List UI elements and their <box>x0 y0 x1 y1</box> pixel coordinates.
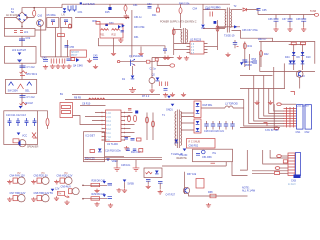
capacitor C35 <box>257 9 268 13</box>
box opto <box>196 179 204 189</box>
svg-text:CY 2n2: CY 2n2 <box>27 96 36 99</box>
box snubber <box>187 139 216 149</box>
capacitor C15 <box>131 139 135 141</box>
resistor R51 <box>58 34 65 37</box>
svg-text:SHORT: SHORT <box>71 52 80 54</box>
svg-text:3 14: 3 14 <box>106 121 111 123</box>
transformer T1 right winding <box>180 112 181 146</box>
svg-text:Q4 C945: Q4 C945 <box>73 65 83 68</box>
svg-text:CN5 FDD 5V: CN5 FDD 5V <box>34 175 49 178</box>
wire <box>47 126 49 129</box>
svg-text:D31: D31 <box>134 36 139 39</box>
wire <box>184 172 186 194</box>
wire <box>273 104 275 130</box>
svg-text:6 11: 6 11 <box>106 133 111 135</box>
diode D3 <box>135 111 138 114</box>
ground <box>114 166 121 171</box>
box B line filter 2 <box>4 47 36 64</box>
ground <box>273 27 278 31</box>
wire <box>240 38 273 41</box>
box bleeder <box>144 168 162 178</box>
svg-text:Q1 2SC4242: Q1 2SC4242 <box>129 55 144 58</box>
capacitor C34 <box>205 8 213 17</box>
wire <box>114 38 142 52</box>
resistor R5 <box>13 139 19 143</box>
resistor R25 <box>139 149 143 153</box>
svg-text:D15: D15 <box>105 11 110 14</box>
wire drop x158 <box>157 4 159 8</box>
wire <box>252 171 288 174</box>
wire <box>21 93 23 107</box>
box C rectifier select <box>5 80 36 94</box>
capacitor C19 <box>211 121 215 130</box>
transistor Q2 <box>149 78 155 84</box>
wire 5VSB rail2 <box>259 42 315 64</box>
resistor R15 <box>146 117 149 123</box>
wire <box>85 113 102 121</box>
wire <box>244 42 246 68</box>
capacitor C13 <box>33 118 37 126</box>
wire <box>232 162 248 176</box>
svg-text:C31 1n: C31 1n <box>134 16 143 19</box>
svg-text:D10: D10 <box>306 56 311 59</box>
diode D21 <box>9 82 14 86</box>
transformer T2 left winding <box>181 29 182 42</box>
resistor R38 <box>208 191 216 198</box>
svg-text:PG: PG <box>213 152 217 155</box>
capacitor C12 <box>25 118 29 126</box>
diode D34 <box>243 8 247 11</box>
diode D40 <box>292 52 296 55</box>
node stub <box>82 185 84 187</box>
ground <box>181 93 186 97</box>
svg-text:L1 FILTER: L1 FILTER <box>83 3 95 6</box>
capacitor C21 <box>224 121 228 130</box>
inductor L3 <box>225 106 233 108</box>
resistor R21 <box>157 8 160 12</box>
resistor R44 <box>301 42 306 45</box>
netlabel <box>106 159 118 164</box>
wire <box>201 107 244 109</box>
svg-text:REMOTE: REMOTE <box>177 157 188 160</box>
netbubble B+ <box>170 64 175 67</box>
wire <box>180 14 182 29</box>
wire <box>147 113 153 141</box>
resistor R28 <box>91 183 100 186</box>
capacitor C38 <box>296 15 306 28</box>
resistor R47 <box>58 191 65 195</box>
svg-text:IC3 DET: IC3 DET <box>86 135 96 138</box>
svg-text:SB360: SB360 <box>245 64 253 67</box>
svg-text:C5 330u: C5 330u <box>47 14 57 17</box>
resistor R42 <box>260 51 270 57</box>
capacitor C48 <box>108 183 113 185</box>
svg-text:7 10: 7 10 <box>106 137 111 139</box>
resistor R26 <box>146 172 153 174</box>
capacitor C43 <box>62 59 65 64</box>
wire <box>83 198 107 200</box>
connector unit CN9 <box>61 185 80 194</box>
resistor R16 <box>152 121 155 127</box>
svg-text:CN7 HDD 12V: CN7 HDD 12V <box>10 192 26 195</box>
capacitor C4 <box>165 82 167 87</box>
transistor Q6 <box>183 187 189 193</box>
wire vbus5 <box>264 76 284 117</box>
node D0 <box>80 2 82 4</box>
resistor R4 <box>20 102 33 105</box>
wire <box>240 127 280 129</box>
node J1 <box>33 7 35 9</box>
box drive stage <box>100 24 123 38</box>
ground <box>206 203 211 207</box>
svg-text:C51 R36: C51 R36 <box>202 156 212 159</box>
ground <box>124 146 129 150</box>
capacitor C11 <box>16 118 20 126</box>
transistor Q5 <box>296 71 303 78</box>
svg-text:CX1: CX1 <box>78 11 83 14</box>
capacitor C40 <box>42 57 48 62</box>
resistor R17 <box>137 138 142 141</box>
resistor R11 <box>62 106 71 109</box>
ground <box>64 200 69 204</box>
ground <box>124 14 129 18</box>
svg-text:C16 R18 100n: C16 R18 100n <box>105 150 121 153</box>
ground <box>163 93 168 97</box>
wire <box>162 162 226 166</box>
wire <box>208 46 218 48</box>
wire bus h1 <box>240 75 273 77</box>
IC3 mark <box>202 150 206 154</box>
bus wire top <box>62 3 230 5</box>
wire <box>249 54 251 70</box>
svg-text:GND1: GND1 <box>166 109 173 112</box>
capacitor C14 <box>125 138 129 140</box>
capacitor C41 <box>51 59 54 64</box>
svg-text:2x AUX: 2x AUX <box>288 183 296 186</box>
netlabel pri <box>166 104 174 112</box>
svg-text:5VSB: 5VSB <box>310 10 317 13</box>
capacitor C3 <box>159 82 161 87</box>
svg-text:SW 230V: SW 230V <box>8 90 19 93</box>
svg-text:C40: C40 <box>42 57 47 60</box>
netlabel in box D <box>17 133 28 138</box>
diode D1 <box>131 76 135 79</box>
transformer T1 core <box>177 110 179 149</box>
ground <box>158 190 163 194</box>
svg-text:C8 R10: C8 R10 <box>82 103 91 106</box>
capacitor C36 <box>268 15 279 28</box>
wire vbus7 <box>274 67 284 111</box>
svg-text:U1 TL494: U1 TL494 <box>107 143 118 146</box>
connector CN3 base <box>294 175 301 179</box>
varistor X2 <box>32 133 37 139</box>
svg-text:R41: R41 <box>248 45 253 48</box>
netlabel pson <box>177 149 188 161</box>
svg-text:CN2: CN2 <box>305 131 311 134</box>
ground <box>122 188 127 192</box>
svg-text:2 15: 2 15 <box>106 117 111 119</box>
ground <box>94 202 99 206</box>
wire <box>302 45 304 70</box>
wire <box>232 31 241 39</box>
ground <box>118 38 123 42</box>
arrow mark <box>65 196 70 198</box>
wire <box>84 157 162 159</box>
wire vbus2 <box>249 89 284 124</box>
resistor R43 <box>291 42 296 45</box>
capacitor C44 <box>67 59 72 61</box>
netlabel <box>103 181 107 184</box>
varistor Z1 <box>68 6 71 12</box>
capacitor C22 <box>230 121 234 130</box>
wire <box>83 184 107 186</box>
resistor R14 <box>134 115 137 122</box>
netlabel tri <box>167 96 171 99</box>
ground <box>165 56 170 60</box>
svg-text:C47 R27: C47 R27 <box>166 194 176 197</box>
diode D16 <box>201 25 205 28</box>
svg-text:C54: C54 <box>193 7 198 10</box>
ground <box>133 166 140 171</box>
IC U2 pins left <box>187 44 191 53</box>
ground <box>146 185 151 189</box>
svg-text:C45: C45 <box>93 55 98 58</box>
red tick <box>264 123 268 127</box>
svg-text:CN9 AUX: CN9 AUX <box>61 185 72 188</box>
wire y17.6 <box>75 17 129 19</box>
resistor R29 <box>91 197 100 200</box>
svg-text:VREF: VREF <box>112 160 119 163</box>
ground <box>55 64 60 68</box>
wire <box>21 23 23 28</box>
svg-text:LF2 2x27mH: LF2 2x27mH <box>12 49 26 52</box>
svg-text:R53: R53 <box>252 58 257 61</box>
node J2 <box>21 26 22 27</box>
netlabel GND-PRI <box>19 106 23 109</box>
svg-text:C38: C38 <box>296 18 301 21</box>
diode D22 <box>27 82 32 86</box>
capacitor C1 <box>147 60 150 63</box>
wire <box>217 27 225 29</box>
ground <box>111 52 116 56</box>
capacitor C9 <box>128 109 131 111</box>
svg-text:R19 C17: R19 C17 <box>131 151 141 154</box>
resistor R34 <box>172 29 175 34</box>
wire rail2 <box>65 99 244 101</box>
connector CN1 pins <box>284 107 297 128</box>
transistor Q4 <box>76 58 81 63</box>
IC U1 pins right <box>121 112 125 141</box>
wire <box>38 111 48 118</box>
diode D7 <box>155 171 159 174</box>
svg-text:C18 C19 C20 C21: C18 C19 C20 C21 <box>204 130 225 133</box>
transformer T3 left winding <box>225 10 226 28</box>
diode D41 <box>292 61 296 64</box>
capacitor C46 <box>158 182 163 190</box>
netlabel 5vsb <box>123 180 134 186</box>
ground <box>61 64 66 68</box>
svg-text:R21: R21 <box>152 14 157 17</box>
diode D4 <box>175 140 179 143</box>
box feedback <box>60 103 73 118</box>
ground <box>170 93 175 97</box>
svg-text:LN: LN <box>62 13 65 16</box>
svg-text:ALL R 1/4W: ALL R 1/4W <box>242 190 256 193</box>
wire <box>263 150 288 164</box>
netbubble p2 <box>275 167 288 170</box>
wire <box>218 26 241 28</box>
wire <box>125 113 135 137</box>
IC U2 pins right <box>204 44 208 53</box>
svg-text:C37: C37 <box>282 18 287 21</box>
netlabel N1 <box>63 8 67 12</box>
svg-text:C36: C36 <box>268 18 273 21</box>
svg-text:CX2: CX2 <box>26 37 31 40</box>
svg-text:3.3V 5V 12V: 3.3V 5V 12V <box>265 129 279 132</box>
ground <box>66 64 71 68</box>
wire <box>150 62 170 66</box>
svg-text:CN6 HDD 12V: CN6 HDD 12V <box>57 175 73 178</box>
connector CN1 body <box>297 105 304 129</box>
svg-text:5 12: 5 12 <box>106 129 111 131</box>
svg-text:R38: R38 <box>208 191 213 194</box>
transformer T3 right winding <box>230 10 231 28</box>
svg-text:R33 470k: R33 470k <box>134 26 145 29</box>
speaker SP1 <box>18 140 38 149</box>
transistor Q10 <box>37 20 44 27</box>
resistor R9 <box>97 98 105 100</box>
rectifier box D19 <box>194 119 201 133</box>
ground <box>138 52 143 56</box>
svg-text:D30: D30 <box>109 22 114 25</box>
svg-text:C56 R52: C56 R52 <box>189 145 199 148</box>
ground <box>254 101 259 105</box>
IC U1 TL494 <box>106 110 122 142</box>
resistor R39 <box>283 160 287 163</box>
svg-text:5VSB: 5VSB <box>128 183 135 186</box>
inductor L2 marks <box>14 31 23 33</box>
capacitor C26 <box>126 149 130 151</box>
diode D6 <box>98 149 102 152</box>
capacitor C27 <box>133 149 137 151</box>
transistor Q3 <box>118 24 125 29</box>
diode D44 <box>285 56 292 64</box>
wire <box>98 38 165 47</box>
connector CN2 body <box>305 105 312 129</box>
svg-text:Q10: Q10 <box>38 15 43 18</box>
wire <box>284 63 299 88</box>
capacitor C6 <box>60 18 72 28</box>
wire <box>232 9 243 11</box>
diode D33 <box>214 21 217 24</box>
wire <box>293 45 295 70</box>
box pwr-ok <box>193 149 233 162</box>
wire rail3 <box>80 105 106 107</box>
wire <box>247 10 258 15</box>
svg-text:NTC 5D-9: NTC 5D-9 <box>26 73 38 76</box>
ground <box>268 101 273 105</box>
ground <box>54 196 59 200</box>
capacitor CY2 <box>20 96 36 100</box>
wire vbus1 <box>244 100 284 127</box>
svg-text:R8 R9: R8 R9 <box>74 97 82 100</box>
capacitor C53 <box>147 3 152 8</box>
wire <box>280 172 289 174</box>
svg-text:C55: C55 <box>70 46 75 49</box>
resistor R35 <box>216 26 219 31</box>
diode D32 <box>234 25 237 28</box>
svg-text:R4 1M: R4 1M <box>26 102 33 105</box>
ground <box>116 188 121 192</box>
IC U2 opto-supervisor <box>190 41 204 55</box>
node bubble <box>117 61 120 63</box>
capacitor C29 <box>146 180 151 185</box>
wire <box>203 9 225 11</box>
capacitor C7 <box>164 89 168 91</box>
svg-text:CN3: CN3 <box>291 180 297 183</box>
ground <box>87 59 92 63</box>
resistor R23 <box>90 150 95 153</box>
diode D2 <box>156 78 160 81</box>
svg-text:SPEAKER: SPEAKER <box>27 146 39 149</box>
diode D5 <box>240 61 252 67</box>
svg-text:5A: 5A <box>11 11 14 14</box>
transformer T3 core <box>227 8 229 33</box>
red tick <box>211 162 216 164</box>
resistor R30 <box>96 22 100 25</box>
svg-text:12V: 12V <box>55 188 60 191</box>
svg-text:C35: C35 <box>262 9 267 12</box>
wire bus h2 <box>240 88 285 90</box>
box protection <box>70 50 86 57</box>
rectifier box D18 <box>194 101 201 118</box>
resistor R8 <box>89 98 97 100</box>
svg-text:LF1: LF1 <box>24 31 29 34</box>
ground <box>287 27 292 31</box>
box D aux-caps <box>4 111 38 145</box>
ground <box>108 203 113 207</box>
wire <box>22 4 62 12</box>
ground <box>43 65 48 69</box>
netlabel <box>103 194 107 197</box>
connector CN3 body <box>296 153 301 176</box>
wire rail <box>46 56 70 58</box>
wire vbus4 <box>259 89 284 119</box>
capacitor CY1 <box>20 66 36 69</box>
resistor R6 <box>46 118 49 126</box>
svg-text:POWER SUPPLY ATX-200 REV.C: POWER SUPPLY ATX-200 REV.C <box>160 21 197 24</box>
svg-text:C36 C37 470u: C36 C37 470u <box>242 29 258 32</box>
resistor R20 <box>124 5 127 11</box>
svg-text:CN1: CN1 <box>296 131 302 134</box>
ground <box>301 27 306 31</box>
wire <box>26 8 34 18</box>
wire <box>189 194 248 197</box>
box housekeeping <box>84 132 105 162</box>
capacitor C39 <box>242 60 253 64</box>
wire <box>21 63 23 79</box>
svg-text:L3 TOROID: L3 TOROID <box>225 103 238 106</box>
svg-text:C10 C11 C12 C13: C10 C11 C12 C13 <box>6 114 26 117</box>
svg-text:R32: R32 <box>112 34 117 37</box>
ground <box>225 53 230 57</box>
wire <box>120 61 146 63</box>
svg-text:CN4 FAN 12V: CN4 FAN 12V <box>10 175 26 178</box>
capacitor C50 <box>196 154 200 156</box>
wire <box>203 28 225 30</box>
svg-text:R31: R31 <box>100 34 105 37</box>
wire vbus3 <box>254 76 284 122</box>
